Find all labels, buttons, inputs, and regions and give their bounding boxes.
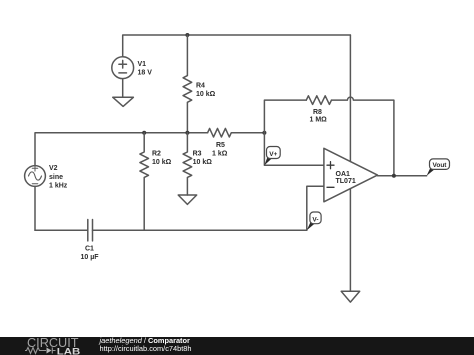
wire V- branch [307,186,324,230]
svg-text:C1: C1 [85,246,94,253]
wire mid rail [35,133,208,166]
svg-text:R8: R8 [313,109,322,116]
wire bottom rail [35,229,307,231]
footer credit text [100,337,192,353]
op-amp minus input mark [327,186,334,188]
wire V+ branch [264,133,324,166]
svg-text:10 µF: 10 µF [81,254,100,261]
capacitor C1 [88,220,93,241]
svg-text:1 MΩ: 1 MΩ [310,117,328,124]
svg-text:R4: R4 [196,83,205,90]
svg-text:V-: V- [312,216,318,223]
op-amp plus input mark [327,162,334,169]
svg-text:Vout: Vout [433,162,448,169]
wire V1 to ground [122,79,124,98]
svg-text:10 kΩ: 10 kΩ [193,159,213,166]
svg-text:V2: V2 [49,165,58,172]
resistor R5 [208,128,265,137]
op-amp OA1 [324,148,378,202]
resistor R4 [183,35,192,133]
svg-text:R3: R3 [193,150,202,157]
svg-text:V+: V+ [269,151,277,158]
svg-text:10 kΩ: 10 kΩ [196,91,216,98]
resistor R8 [306,96,331,105]
ground below R3 [178,195,197,204]
flag V+ [264,157,271,165]
node junction mid rail / R2 [142,131,146,135]
svg-text:R2: R2 [152,150,161,157]
resistor R2 [140,133,149,231]
svg-text:LAB: LAB [57,346,81,355]
node junction top rail / R4 [185,33,189,37]
wire R8 right with hop over supply [332,97,394,176]
svg-text:OA1: OA1 [336,171,351,178]
wire V2 bottom [34,186,36,230]
wire supply rail vertical [349,35,351,291]
svg-text:TL071: TL071 [336,178,356,185]
svg-text:V1: V1 [138,61,147,68]
node junction output / R8 [392,174,396,178]
svg-text:1 kΩ: 1 kΩ [212,150,228,157]
svg-text:18 V: 18 V [138,70,153,77]
resistor R3 [183,133,192,195]
wire output [378,175,427,177]
flag V- [307,222,315,230]
wire R8 left branch [264,100,306,133]
svg-text:R5: R5 [216,142,225,149]
CircuitLab logo [25,337,87,355]
ground below op-amp [341,291,360,302]
ground below V1 [113,97,134,106]
flag Vout [427,168,435,176]
svg-text:10 kΩ: 10 kΩ [152,159,172,166]
node junction mid rail / R8 branch [262,131,266,135]
wire top rail [123,35,351,57]
svg-text:sine: sine [49,174,63,181]
voltage source V2 [25,166,46,187]
svg-text:1 kHz: 1 kHz [49,183,68,190]
node junction mid rail / R3 R4 [185,131,189,135]
voltage source V1 [112,57,134,79]
footer bar [0,337,474,355]
